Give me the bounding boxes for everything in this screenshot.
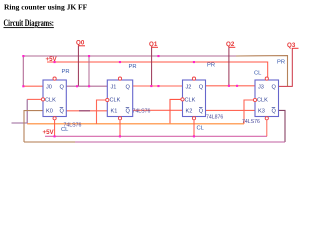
label CL U3 — [197, 126, 205, 132]
svg-text:Q: Q — [272, 84, 277, 90]
wire CLK4 drop — [244, 100, 255, 124]
wire +5V supply rail top — [47, 62, 268, 78]
flip-flop U1 PR bubble — [53, 77, 56, 80]
label CL U4 — [254, 71, 262, 77]
node J0 corner bottom — [22, 85, 24, 87]
wire top magenta bus (J0 feed) — [23, 56, 236, 86]
label Q3 — [287, 42, 296, 49]
node Q2 label junction — [228, 85, 230, 87]
node Q1 bus junction — [157, 55, 159, 57]
node Q3 riser — [279, 48, 299, 86]
node Q1 riser junction — [157, 85, 159, 87]
flip-flop U1 box — [43, 80, 66, 117]
flip-flop U3 CLK bubble — [181, 98, 184, 101]
svg-text:PR: PR — [129, 64, 137, 70]
label 74LS76 U2 — [133, 109, 151, 115]
svg-text:Circuit Diagrams:: Circuit Diagrams: — [4, 18, 54, 28]
wire bottom feedback rail brown part — [24, 141, 75, 143]
label PR U4 — [277, 60, 285, 66]
node J0 corner top — [22, 55, 24, 57]
svg-text:Q: Q — [199, 109, 204, 115]
svg-text:J3: J3 — [258, 84, 264, 90]
wire Q4bar feedback right — [279, 110, 286, 142]
label +5V top — [46, 56, 58, 63]
node Q1 riser — [152, 47, 158, 86]
flip-flop U4 CLK bubble — [253, 98, 256, 101]
wire connector Q0 to top bus — [88, 56, 90, 86]
flip-flop U2 CLK bubble — [106, 98, 109, 101]
node PR2 junction — [119, 61, 121, 63]
svg-text:J0: J0 — [46, 84, 52, 90]
svg-text:K2: K2 — [186, 109, 193, 115]
label PR U3 — [207, 63, 215, 69]
flip-flop U2 PR bubble — [118, 77, 121, 80]
node PR3 junction — [193, 61, 195, 63]
wire Q1 to J2 — [133, 85, 183, 87]
svg-text:CLK: CLK — [110, 98, 121, 104]
flip-flop U3 box — [183, 80, 206, 117]
svg-text:K3: K3 — [258, 109, 265, 115]
wire CLK1 drop purple — [12, 99, 28, 123]
svg-text:CL: CL — [254, 71, 262, 77]
wire CL1 drop — [54, 120, 56, 136]
wire CL4 drop — [266, 120, 268, 136]
svg-text:CLK: CLK — [45, 98, 56, 104]
node Q2 riser — [229, 47, 235, 86]
wire bottom feedback rail pink part — [75, 141, 285, 143]
svg-text:Ring counter using JK FF: Ring counter using JK FF — [4, 3, 88, 12]
flip-flop U3 PR bubble — [192, 77, 195, 80]
svg-text:+5V: +5V — [43, 129, 55, 136]
label 74LS76 U3 — [206, 115, 223, 121]
svg-text:Q: Q — [60, 109, 65, 115]
wire dark overlay segment — [79, 110, 90, 112]
wire clock rail orange — [27, 123, 244, 125]
label PR U2 — [129, 64, 137, 70]
svg-text:Q3: Q3 — [287, 42, 296, 49]
node PR1 junction — [54, 61, 56, 63]
svg-text:Q: Q — [272, 109, 277, 115]
node Q0 bus junction — [88, 55, 90, 57]
svg-text:+5V: +5V — [46, 56, 58, 63]
svg-text:Q2: Q2 — [226, 41, 235, 48]
svg-text:K1: K1 — [111, 109, 118, 115]
wire CLK3 drop — [170, 99, 183, 123]
wire Q0 to J1 — [66, 85, 107, 87]
svg-text:K0: K0 — [46, 109, 53, 115]
svg-text:Q: Q — [126, 84, 131, 90]
svg-text:Q0: Q0 — [76, 40, 85, 47]
svg-text:Q: Q — [60, 84, 65, 90]
flip-flop U1 CLK bubble — [41, 98, 44, 101]
wire K0 input brown — [24, 111, 43, 142]
svg-text:PR: PR — [207, 63, 215, 69]
wire CLK1 input — [27, 98, 43, 100]
svg-text:PR: PR — [277, 60, 285, 66]
node CL3 junction — [193, 135, 195, 137]
wire CLK2 drop — [97, 100, 108, 124]
svg-text:74LS76: 74LS76 — [133, 109, 151, 115]
node Q0 label junction — [76, 85, 78, 87]
svg-text:CLK: CLK — [185, 98, 196, 104]
svg-text:PR: PR — [62, 69, 70, 75]
flip-flop U4 CL bubble — [265, 117, 268, 120]
wire CL2 drop — [119, 120, 121, 136]
node Q2 riser junction — [236, 85, 238, 87]
flip-flop U2 CL bubble — [118, 117, 121, 120]
wire Q1bar to K1 — [66, 110, 107, 112]
wire CL rail magenta — [45, 135, 267, 137]
svg-text:74LS76: 74LS76 — [242, 119, 260, 125]
label Q1 — [149, 41, 158, 48]
label Q0 — [76, 40, 85, 47]
svg-text:J1: J1 — [111, 84, 117, 90]
node CL1 junction — [54, 135, 56, 137]
svg-text:CLK: CLK — [257, 98, 268, 104]
label 74LS76 U1 — [64, 123, 82, 129]
flip-flop U1 CL bubble — [53, 117, 56, 120]
flip-flop U3 CL bubble — [192, 117, 195, 120]
wire Q3bar to K3 — [206, 109, 256, 111]
wire CL3 drop — [193, 120, 195, 136]
svg-text:J2: J2 — [186, 84, 192, 90]
label Q2 — [226, 41, 235, 48]
node Q1 label junction — [150, 85, 152, 87]
node CL2 junction — [119, 135, 121, 137]
wire J0 input — [23, 85, 43, 87]
label +5V bottom — [43, 129, 55, 136]
svg-text:Q: Q — [199, 84, 204, 90]
svg-text:CL: CL — [197, 126, 205, 132]
node Q0 riser — [78, 46, 85, 87]
flip-flop U4 box — [255, 80, 279, 117]
svg-text:Q: Q — [126, 109, 131, 115]
flip-flop U4 PR bubble — [265, 77, 268, 80]
title text — [4, 3, 88, 12]
wire Q2 to J3 — [206, 85, 256, 87]
svg-text:74LS76: 74LS76 — [64, 123, 82, 129]
svg-text:Q1: Q1 — [149, 41, 158, 48]
flip-flop U2 box — [107, 80, 132, 117]
label PR U1 — [62, 69, 70, 75]
wire top brown segment to Q3 — [236, 56, 288, 87]
svg-text:74L876: 74L876 — [206, 115, 223, 121]
label 74LS76 U4 — [242, 119, 260, 125]
heading Circuit Diagrams — [4, 18, 54, 28]
wire Q2bar to K2 — [133, 109, 183, 111]
label CL U1 — [61, 127, 69, 133]
node Q0 riser junction — [88, 85, 90, 87]
